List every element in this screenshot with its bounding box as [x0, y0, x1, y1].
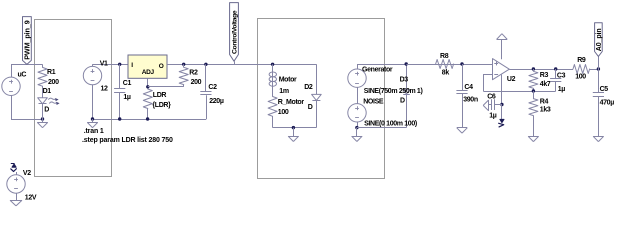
svg-text:R1: R1	[47, 69, 56, 76]
svg-text:uC: uC	[18, 72, 27, 79]
svg-text:1µ: 1µ	[123, 94, 131, 101]
svg-text:200: 200	[48, 79, 59, 86]
svg-text:C6: C6	[487, 94, 496, 101]
svg-text:8k: 8k	[442, 70, 450, 77]
svg-text:C3: C3	[557, 73, 566, 80]
svg-text:C4: C4	[464, 84, 473, 91]
svg-text:ControlVoltage: ControlVoltage	[231, 10, 238, 54]
svg-text:200: 200	[191, 79, 202, 86]
svg-text:1m: 1m	[279, 88, 289, 95]
svg-text:390n: 390n	[463, 96, 478, 103]
svg-text:R4: R4	[540, 98, 549, 105]
svg-text:D3: D3	[400, 76, 409, 83]
svg-text:R3: R3	[540, 72, 549, 79]
svg-text:100: 100	[575, 73, 586, 80]
svg-text:1µ: 1µ	[558, 86, 566, 93]
svg-text:C2: C2	[208, 84, 217, 91]
svg-text:LDR: LDR	[153, 92, 167, 99]
svg-text:C5: C5	[600, 86, 609, 93]
svg-text:220µ: 220µ	[209, 98, 224, 105]
svg-text:A0_pin: A0_pin	[596, 28, 603, 51]
svg-text:12: 12	[101, 86, 109, 93]
svg-text:1µ: 1µ	[489, 113, 497, 120]
svg-text:4k7: 4k7	[540, 81, 551, 88]
svg-text:D1: D1	[43, 88, 52, 95]
svg-text:ADJ: ADJ	[142, 69, 155, 76]
svg-text:O: O	[159, 63, 164, 70]
svg-text:.step param LDR list 280 750: .step param LDR list 280 750	[82, 137, 173, 144]
svg-text:R2: R2	[189, 69, 198, 76]
svg-text:12V: 12V	[25, 194, 37, 201]
svg-text:U2: U2	[507, 76, 516, 83]
svg-text:R_Motor: R_Motor	[278, 99, 305, 106]
svg-text:R9: R9	[577, 57, 586, 64]
svg-text:SINE(750m 250m 1): SINE(750m 250m 1)	[364, 88, 423, 95]
svg-text:V2: V2	[23, 170, 31, 177]
svg-text:C1: C1	[123, 80, 132, 87]
svg-text:R8: R8	[440, 53, 449, 60]
svg-text:1k3: 1k3	[540, 107, 551, 114]
svg-text:{LDR}: {LDR}	[152, 102, 171, 109]
svg-text:NOISE: NOISE	[363, 98, 384, 105]
svg-text:SINE(0 100m 100): SINE(0 100m 100)	[364, 121, 417, 128]
svg-text:V1: V1	[100, 61, 108, 68]
svg-text:D: D	[400, 98, 405, 105]
svg-text:Generator: Generator	[362, 66, 393, 73]
svg-text:PWM_pin_9: PWM_pin_9	[22, 20, 31, 60]
svg-text:470µ: 470µ	[600, 99, 615, 106]
svg-text:Motor: Motor	[279, 77, 297, 84]
svg-text:.tran 1: .tran 1	[84, 128, 104, 135]
svg-text:100: 100	[278, 109, 289, 116]
svg-text:D2: D2	[304, 84, 313, 91]
svg-text:D: D	[308, 104, 313, 111]
svg-text:D: D	[44, 107, 49, 114]
